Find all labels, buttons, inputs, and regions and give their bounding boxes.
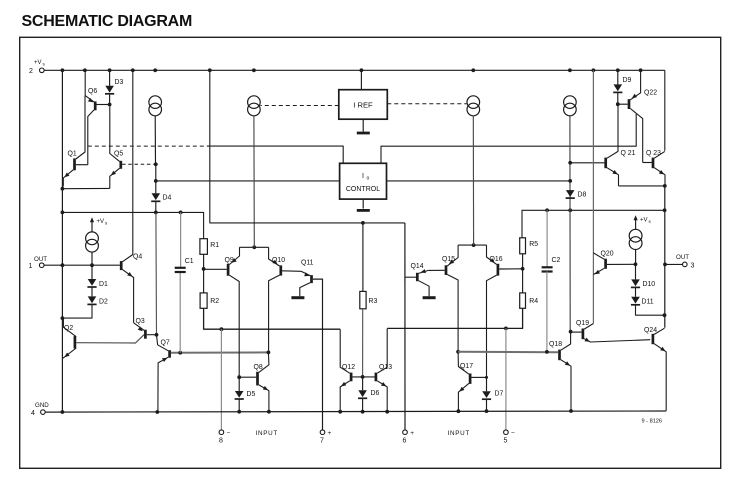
wire R1 feed — [62, 212, 203, 238]
diode D2 — [87, 296, 96, 304]
wire D5 to GND rail — [238, 399, 240, 412]
transistor Q13 — [376, 329, 387, 412]
current source CS2 — [248, 96, 261, 116]
node D8 anode — [568, 179, 572, 183]
wire D7 to GND rail — [486, 399, 488, 411]
svg-text:Q5: Q5 — [114, 151, 123, 158]
svg-text:INPUT: INPUT — [256, 430, 278, 437]
diode D9 — [613, 84, 622, 92]
wire Q19 base — [571, 331, 582, 333]
svg-text:R4: R4 — [529, 298, 538, 305]
wire Q21 base — [570, 162, 604, 164]
node Q20 base — [634, 262, 638, 266]
pin 8 (input -) — [219, 429, 231, 444]
wire C2 top lead — [546, 210, 548, 267]
svg-text:D2: D2 — [99, 299, 108, 306]
wire D4 anode stub — [155, 181, 157, 193]
wire OUT3 vertical — [664, 186, 666, 328]
svg-text:D11: D11 — [642, 298, 654, 305]
wire Q15 Q16 emitters — [458, 244, 486, 246]
label Q18 — [549, 341, 562, 348]
node C1 bottom — [178, 351, 182, 355]
wire D3 to Q6 base node — [109, 95, 111, 105]
svg-text:INPUT: INPUT — [448, 430, 470, 437]
label Q12 — [342, 364, 355, 371]
resistor R1 — [200, 239, 208, 255]
wire OUT3 to node — [665, 263, 683, 265]
node Q22 base — [616, 102, 620, 106]
wire node to Q16 base — [499, 268, 522, 270]
svg-text:2: 2 — [29, 68, 33, 75]
node OUT3 tap — [663, 263, 667, 267]
label D3 — [115, 79, 124, 86]
node OUT1 tap — [61, 263, 65, 267]
wire R3 top lead — [362, 223, 364, 292]
node Q6 base — [108, 103, 112, 107]
pin 2 (+Vs) — [29, 60, 46, 75]
node R1 feed tap — [61, 211, 65, 215]
wire Q16 collector to D7 — [486, 377, 488, 391]
junction on GND rail — [155, 410, 159, 414]
junction on +Vs rail — [568, 68, 572, 72]
label R4 — [529, 298, 538, 305]
svg-text:o: o — [367, 176, 370, 182]
label D7 — [495, 391, 504, 398]
junction on +Vs rail — [131, 68, 135, 72]
label D1 — [99, 281, 108, 288]
resistor R5 — [520, 238, 526, 254]
wire CS3 to tail — [472, 116, 474, 245]
node R5 R4 — [521, 267, 525, 271]
label INPUT right — [448, 430, 470, 437]
current source CS4 — [564, 96, 577, 116]
label D6 — [371, 390, 380, 397]
label R5 — [529, 241, 538, 248]
wire Q9 Q10 emitters — [240, 246, 269, 248]
label Q4 — [133, 254, 142, 261]
label R1 — [210, 242, 219, 249]
wire R5 to node — [522, 254, 524, 269]
svg-text:Q8: Q8 — [254, 364, 263, 371]
label Q17 — [460, 363, 473, 370]
transistor Q19 — [583, 324, 650, 343]
node D8 line crossing — [568, 208, 572, 212]
wire D10 to D11 — [635, 288, 637, 297]
label D10 — [643, 281, 656, 288]
wire OUT1 to node — [44, 264, 62, 266]
junction on +Vs rail — [639, 68, 643, 72]
resistor R4 — [520, 293, 526, 308]
node Q5 base bias — [154, 162, 158, 166]
node D4 anode — [154, 179, 158, 183]
svg-text:Q15: Q15 — [442, 256, 455, 263]
wire Q22 base — [618, 103, 628, 105]
wire D6 to GND rail — [362, 399, 364, 412]
svg-text:GND: GND — [35, 402, 49, 409]
wire Q5 emitter link — [62, 187, 109, 189]
junction on +Vs rail — [471, 68, 475, 72]
wire D2 to OUT line — [62, 305, 92, 319]
svg-text:+V: +V — [97, 219, 105, 225]
current source CS6 (+Vs) — [629, 229, 642, 249]
junction on +Vs rail — [153, 68, 157, 72]
wire Q11 base — [313, 279, 323, 430]
current source CS3 — [467, 96, 480, 116]
node OUT line bias — [663, 208, 667, 212]
wire node to D10 — [635, 264, 637, 279]
wire CS2 to tail — [253, 116, 255, 248]
node tail current right — [472, 243, 476, 247]
svg-text:CONTROL: CONTROL — [346, 186, 380, 193]
node Q4 base — [90, 263, 94, 267]
junction on GND rail — [237, 410, 241, 414]
wire R5 top — [522, 210, 547, 238]
junction on +Vs rail — [360, 68, 364, 72]
wire Q4 base node to D1 — [91, 265, 93, 279]
capacitor C1 — [175, 268, 186, 272]
svg-text:Q20: Q20 — [601, 251, 614, 258]
label Q1 — [68, 151, 77, 158]
svg-text:Q 23: Q 23 — [646, 150, 661, 157]
wire CS4 down to Q19 — [569, 116, 571, 332]
svg-text:Q12: Q12 — [342, 364, 355, 371]
wire dashed I REF to CS3 — [387, 103, 467, 105]
svg-text:D5: D5 — [247, 391, 256, 398]
diode D4 — [151, 193, 160, 201]
wire R4 to input line — [387, 308, 522, 328]
node Q8 base — [237, 375, 241, 379]
diode D3 — [105, 86, 114, 94]
svg-text:OUT: OUT — [34, 256, 47, 263]
svg-text:D9: D9 — [623, 77, 632, 84]
wire D9 to Q22 base — [617, 93, 619, 104]
wire base node to D6 — [362, 377, 364, 390]
junction on GND rail — [361, 410, 365, 414]
diode D6 — [358, 390, 367, 398]
junction on GND rail — [569, 409, 573, 413]
wire bias line right — [547, 209, 665, 211]
transistor Q2 — [63, 318, 76, 358]
svg-text:−: − — [511, 429, 515, 436]
node Q17 base — [485, 376, 488, 379]
wire pin 8 riser — [220, 329, 222, 430]
wire R2 to input line — [204, 308, 341, 329]
label R3 — [369, 298, 378, 305]
svg-text:6: 6 — [403, 437, 407, 444]
label Q13 — [379, 364, 392, 371]
transistor Q23 — [653, 151, 665, 186]
wire Q22 collector to Q23 base — [643, 162, 652, 164]
wire Q7 base line — [171, 351, 269, 353]
pin 7 (input +) — [320, 430, 332, 444]
node D11 tap — [663, 313, 667, 317]
wire Q20 base — [607, 263, 636, 265]
wire C1 bottom lead — [179, 272, 181, 353]
label Q3 — [136, 318, 145, 325]
svg-text:D4: D4 — [163, 195, 172, 202]
wire Q18 base line — [458, 351, 558, 353]
svg-text:9 - 8126: 9 - 8126 — [642, 418, 663, 424]
svg-text:4: 4 — [31, 410, 35, 417]
supply arrow +Vs right — [634, 215, 638, 229]
wire D4 node to Io box left side — [156, 180, 340, 182]
label Q11 — [301, 260, 314, 267]
svg-text:Q22: Q22 — [644, 90, 657, 97]
junction on +Vs rail — [208, 68, 212, 72]
label Q21 — [621, 150, 636, 157]
ground under Io CONTROL — [357, 209, 370, 212]
svg-text:Q18: Q18 — [549, 341, 562, 348]
svg-text:Q24: Q24 — [644, 327, 657, 334]
svg-text:−: − — [227, 429, 231, 436]
transistor Q17 — [458, 352, 470, 411]
wire pin 5 riser — [505, 328, 507, 430]
transistor Q20 — [593, 253, 605, 275]
wire D11 to OUT line — [636, 305, 665, 315]
pin 6 (input +) — [403, 430, 415, 444]
label Q2 — [64, 325, 73, 332]
svg-text:Q17: Q17 — [460, 363, 473, 370]
wire node to D5 — [238, 377, 240, 391]
ground at Q11 collector — [291, 296, 304, 299]
transistor Q3 — [134, 323, 157, 339]
node mirror base — [361, 375, 365, 379]
diode D10 — [631, 279, 640, 287]
svg-text:D7: D7 — [495, 391, 504, 398]
label INPUT left — [256, 430, 278, 437]
ground under I REF — [357, 132, 370, 135]
junction on GND rail — [385, 410, 389, 414]
label I REF — [353, 101, 373, 110]
junction on +Vs rail — [592, 68, 596, 72]
ground at Q14 collector — [423, 296, 436, 299]
transistor Q4 — [121, 70, 133, 322]
junction on GND rail — [485, 409, 489, 413]
svg-text:Q1: Q1 — [68, 151, 77, 158]
junction on GND rail — [267, 410, 271, 414]
node R3 top — [361, 221, 365, 225]
svg-text:Q3: Q3 — [136, 318, 145, 325]
junction on +Vs rail — [616, 68, 620, 72]
svg-text:7: 7 — [320, 437, 324, 444]
label Io sub — [367, 176, 370, 182]
node Q5 emitter tap — [61, 187, 65, 191]
wire GND rail — [45, 411, 666, 412]
wire Q10 base to Q11 — [282, 271, 310, 276]
label Q20 — [601, 251, 614, 258]
node Q21 base tap — [568, 161, 572, 165]
svg-text:+: + — [410, 430, 414, 437]
title — [22, 13, 193, 30]
svg-text:5: 5 — [504, 437, 508, 444]
supply arrow +Vs left — [90, 217, 94, 231]
label Q23 — [646, 150, 661, 157]
svg-text:C1: C1 — [185, 258, 194, 265]
transistor Q6 — [85, 70, 95, 164]
junction on GND rail — [61, 410, 65, 414]
wire C1 top lead — [180, 212, 182, 267]
wire control into Io box left — [207, 146, 343, 163]
svg-text:Q10: Q10 — [272, 257, 285, 264]
node Q3 collector — [155, 333, 159, 337]
pin 3 (OUT) — [676, 254, 695, 269]
diode D11 — [631, 297, 640, 305]
wire control from Io box right to Q22 — [381, 114, 636, 164]
diode D7 — [482, 391, 491, 399]
pin 1 (OUT) — [29, 256, 48, 270]
svg-text:D6: D6 — [371, 390, 380, 397]
svg-text:D1: D1 — [99, 281, 108, 288]
svg-text:+V: +V — [34, 60, 42, 66]
wire Io CONTROL to ground — [362, 199, 364, 209]
transistor Q8 — [258, 352, 269, 411]
label Q8 — [254, 364, 263, 371]
label CONTROL — [346, 186, 380, 193]
svg-text:D3: D3 — [115, 79, 124, 86]
resistor R2 — [200, 293, 207, 308]
wire rail to D9 — [617, 70, 619, 84]
pin 4 (GND) — [31, 402, 49, 417]
svg-text:1: 1 — [29, 263, 33, 270]
svg-text:SCHEMATIC DIAGRAM: SCHEMATIC DIAGRAM — [22, 13, 193, 30]
svg-text:+: + — [328, 430, 332, 437]
junction on GND rail — [457, 409, 461, 413]
wire OUT1 vertical — [61, 70, 63, 412]
junction on +Vs rail — [252, 68, 256, 72]
svg-text:Q16: Q16 — [490, 256, 503, 263]
wire Q14 base — [405, 276, 416, 278]
svg-text:Q14: Q14 — [411, 263, 424, 270]
wire CS6 to Q20 base node — [635, 250, 637, 265]
junction on +Vs rail — [61, 68, 65, 72]
current source CS5 (+Vs) — [86, 232, 99, 252]
svg-text:3: 3 — [691, 262, 695, 269]
diode D8 — [566, 190, 575, 198]
node tail current — [252, 245, 256, 249]
svg-text:8: 8 — [219, 437, 223, 444]
resistor R3 — [360, 291, 366, 308]
wire rail to D3 — [109, 70, 111, 86]
label +Vs right — [640, 218, 652, 225]
node pin5 tap — [504, 327, 508, 331]
capacitor C2 — [542, 267, 553, 271]
wire Q1 base — [76, 164, 88, 166]
wire rail to Q20 Q19 — [592, 70, 594, 323]
node C2 bottom — [545, 350, 549, 354]
svg-text:OUT: OUT — [676, 254, 689, 261]
transistor Q22 — [629, 70, 643, 162]
block Io CONTROL — [340, 163, 387, 199]
transistor Q21 — [606, 104, 619, 186]
svg-text:Q19: Q19 — [576, 320, 589, 327]
node Q10 collector junction — [267, 351, 271, 355]
svg-text:Q4: Q4 — [133, 254, 142, 261]
svg-text:Q 21: Q 21 — [621, 150, 636, 157]
svg-text:D10: D10 — [643, 281, 656, 288]
wire rail bias drop — [210, 70, 405, 223]
label Q24 — [644, 327, 657, 334]
node Q19 base node — [569, 330, 573, 334]
wire node to Q9 base — [204, 268, 227, 270]
svg-text:+V: +V — [640, 218, 648, 224]
wire node to R2 — [203, 269, 205, 293]
wire D4 line down to Q3 node — [155, 212, 158, 334]
wire Q6 base — [96, 104, 109, 106]
transistor Q14 — [417, 269, 429, 296]
svg-text:Q2: Q2 — [64, 325, 73, 332]
wire bias node to D4 — [155, 164, 157, 181]
junction on +Vs rail — [108, 68, 112, 72]
transistor Q12 — [340, 329, 351, 412]
pin 5 (input -) — [504, 429, 516, 444]
transistor Q16 — [487, 245, 498, 377]
svg-text:R5: R5 — [529, 241, 538, 248]
wire D1 to D2 — [91, 287, 93, 296]
label Q5 — [114, 151, 123, 158]
label D4 — [163, 195, 172, 202]
transistor Q7 — [157, 335, 170, 412]
wire rail right drop to Q23 — [664, 70, 666, 151]
wire Q14 emitter to Q15 base — [428, 269, 444, 271]
wire Q12 Q13 bases — [352, 376, 374, 378]
svg-text:Q7: Q7 — [161, 340, 170, 347]
wire R1 to node — [203, 254, 205, 269]
transistor Q10 — [269, 247, 281, 352]
wire +Vs rail — [44, 69, 665, 71]
wire C2 bottom lead — [546, 272, 548, 352]
svg-text:R2: R2 — [210, 298, 219, 305]
wire rail to I REF — [360, 70, 362, 89]
junction on +Vs rail — [83, 68, 87, 72]
node C2 top — [545, 208, 549, 212]
wire dashed I REF to CS2 — [260, 105, 338, 107]
label Q22 — [644, 90, 657, 97]
transistor Q18 — [560, 332, 572, 411]
label Q9 — [225, 257, 234, 264]
wire OUT node to Q4 base — [62, 264, 120, 266]
wire CS1 to bias node — [154, 116, 156, 165]
svg-text:Q13: Q13 — [379, 364, 392, 371]
wire I REF to ground — [362, 119, 364, 132]
wire Q2 base line — [76, 335, 144, 343]
label Io — [362, 171, 364, 180]
svg-text:Q9: Q9 — [225, 257, 234, 264]
transistor Q24 — [653, 328, 666, 411]
svg-text:I: I — [362, 171, 364, 180]
label Q16 — [490, 256, 503, 263]
transistor Q5 — [110, 106, 121, 188]
svg-text:R1: R1 — [210, 242, 219, 249]
label Q19 — [576, 320, 589, 327]
transistor Q9 — [228, 247, 239, 377]
transistor Q11 — [300, 272, 312, 296]
wire Q21 emitter link — [619, 185, 665, 187]
label R2 — [210, 298, 219, 305]
label Q7 — [161, 340, 170, 347]
label D2 — [99, 299, 108, 306]
wire pin 6 riser — [404, 223, 406, 430]
label D11 — [642, 298, 654, 305]
svg-text:D8: D8 — [578, 192, 587, 199]
label Q15 — [442, 256, 455, 263]
label +Vs left — [97, 219, 109, 226]
diode D1 — [87, 279, 96, 287]
wire D4 to R1 line — [155, 202, 157, 213]
svg-text:I REF: I REF — [353, 101, 373, 110]
wire R3 bottom lead — [362, 309, 364, 377]
junction on GND rail — [338, 410, 342, 414]
label C2 — [552, 257, 561, 264]
